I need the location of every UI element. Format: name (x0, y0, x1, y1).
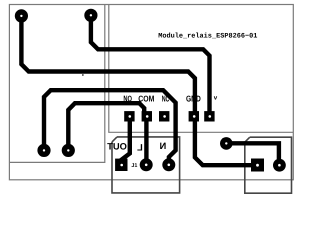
wire pad B to COM pad (68, 103, 144, 150)
wire NO to OUT terminal (121, 116, 130, 165)
wire P2 to +5v pad (91, 15, 210, 116)
svg-text:L: L (137, 142, 143, 152)
terminal J1 outline (middle bottom dark rect, chamfered corner) (112, 137, 180, 193)
pad COM (square) (142, 111, 152, 121)
pad J1 OUT (square) (115, 159, 127, 171)
svg-text:J1: J1 (131, 163, 137, 169)
svg-text:Module_relais_ESP8266−01: Module_relais_ESP8266−01 (158, 33, 257, 41)
pad J2 round (273, 159, 286, 172)
pad GND (square) (189, 111, 199, 121)
via near J2 (220, 137, 233, 150)
wire via to J2 round pad (226, 143, 279, 165)
pad J2 square (251, 159, 264, 172)
PCB board outline (9, 5, 293, 180)
pad A (relay coil pin) (37, 144, 50, 157)
footprint anchor dot (82, 74, 84, 76)
pad +5v (square) (204, 111, 214, 121)
relay K1 footprint outline (left rect) (9, 5, 104, 163)
ESP8266 module footprint outline (right rect) (109, 5, 293, 133)
svg-text:v: v (214, 94, 218, 101)
wire pad A to N terminal (44, 90, 176, 165)
svg-text:OUT: OUT (107, 141, 127, 151)
terminal J2 outline (right bottom dark rect, chamfered corner) (245, 137, 292, 193)
pad B (relay coil pin) (62, 144, 75, 157)
pad P2 (relay pin) (84, 9, 97, 22)
wire COM to L terminal (144, 116, 148, 165)
svg-text:N: N (159, 141, 166, 151)
wire P1 to GND to J2 square pad (21, 16, 257, 165)
pad P1 (relay pin) (15, 9, 28, 22)
pad J1 L (round) (140, 158, 153, 171)
pad NO (square) (124, 111, 134, 121)
pad NC (square) (159, 111, 169, 121)
pad J1 N (round) (162, 158, 175, 171)
